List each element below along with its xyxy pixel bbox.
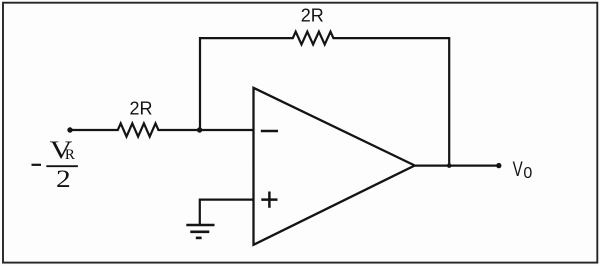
svg-text:V: V (513, 156, 524, 180)
svg-text:R: R (65, 147, 75, 163)
svg-text:0: 0 (523, 165, 532, 182)
svg-text:2R: 2R (301, 6, 324, 26)
svg-text:2R: 2R (129, 98, 152, 118)
svg-text:2: 2 (56, 165, 71, 192)
